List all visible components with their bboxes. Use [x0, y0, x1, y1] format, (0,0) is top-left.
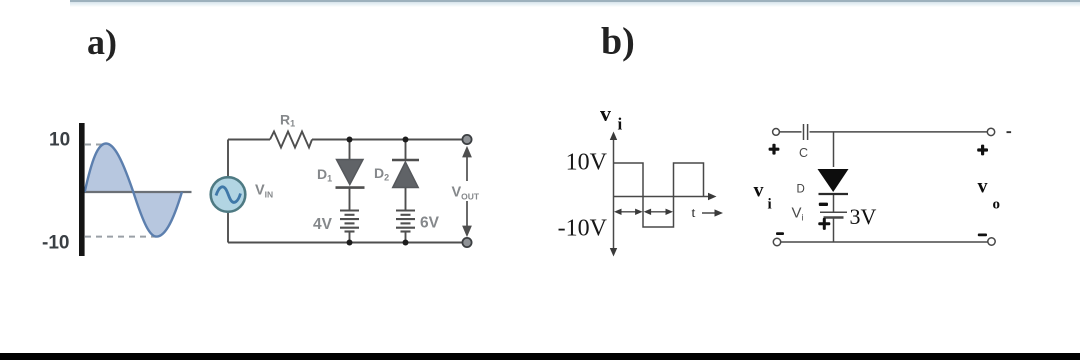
svg-text:VIN: VIN [255, 183, 273, 200]
svg-text:4V: 4V [313, 216, 333, 233]
svg-text:-10: -10 [42, 233, 69, 254]
svg-text:R1: R1 [280, 112, 295, 129]
svg-text:C: C [799, 146, 808, 160]
svg-text:v: v [600, 101, 611, 126]
svg-text:Vi: Vi [792, 205, 804, 223]
svg-text:v: v [754, 180, 764, 202]
svg-text:D1: D1 [317, 166, 332, 184]
svg-text:6V: 6V [420, 215, 440, 232]
svg-text:b): b) [601, 21, 635, 63]
svg-text:i: i [618, 115, 623, 134]
svg-text:3V: 3V [850, 204, 877, 229]
svg-text:10V: 10V [566, 150, 608, 176]
svg-text:v: v [978, 176, 988, 198]
svg-text:-10V: -10V [558, 216, 608, 242]
svg-text:i: i [768, 197, 772, 213]
svg-text:o: o [993, 197, 1001, 213]
svg-text:t: t [692, 206, 696, 221]
svg-text:D2: D2 [374, 165, 389, 183]
svg-text:D: D [797, 184, 805, 196]
svg-text:10: 10 [49, 130, 70, 151]
svg-text:a): a) [87, 22, 117, 62]
svg-text:VOUT: VOUT [452, 185, 480, 202]
